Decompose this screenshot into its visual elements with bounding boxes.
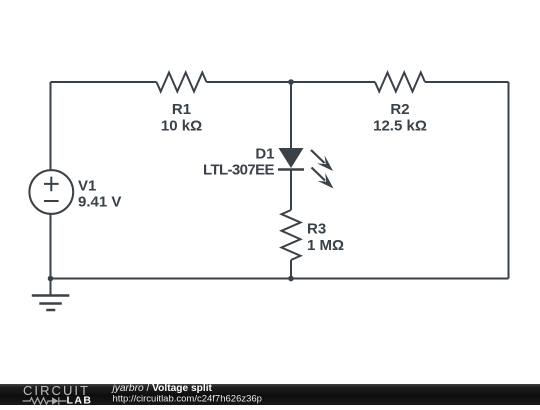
D1 light arrow 1 <box>311 150 333 171</box>
svg-text:R1: R1 <box>172 101 191 118</box>
ground bar 1 <box>32 294 70 297</box>
wire D1 cathode to R3 <box>290 170 292 211</box>
resistor R3 <box>282 210 301 260</box>
wire V1 bottom to node B <box>50 214 52 279</box>
junction node C dot <box>288 276 294 282</box>
svg-text:R3: R3 <box>307 221 326 238</box>
svg-text:D1: D1 <box>255 146 274 163</box>
wire top-left horizontal <box>51 81 157 83</box>
wire left top vertical <box>50 82 52 170</box>
V1 minus sign <box>44 200 59 202</box>
ground stem <box>50 279 52 296</box>
wire R2 to top-right corner <box>425 81 509 83</box>
diode D1 anode triangle <box>279 148 304 168</box>
svg-text:9.41 V: 9.41 V <box>78 194 121 211</box>
svg-text:R2: R2 <box>390 101 409 118</box>
svg-text:LAB: LAB <box>67 394 92 405</box>
junction node A dot <box>288 79 294 85</box>
svg-text:jyarbro / Voltage split: jyarbro / Voltage split <box>111 383 213 394</box>
wire right vertical <box>508 82 510 279</box>
logo resistor-diode glyph <box>23 397 67 404</box>
logo diode triangle <box>52 397 58 404</box>
ground bar 3 <box>46 309 55 312</box>
diode D1 cathode bar <box>278 168 304 171</box>
svg-text:http://circuitlab.com/c24f7h62: http://circuitlab.com/c24f7h626z36p <box>113 394 262 405</box>
svg-text:V1: V1 <box>78 178 96 195</box>
resistor R1 <box>157 73 207 92</box>
resistor R2 <box>375 73 425 92</box>
footer bar <box>0 384 540 405</box>
wire R3 to node C <box>290 260 292 279</box>
voltage source V1 circle <box>29 170 73 214</box>
V1 plus sign <box>44 177 59 192</box>
D1 light arrow 2 <box>312 168 334 189</box>
svg-text:LTL-307EE: LTL-307EE <box>203 162 275 179</box>
wire node A to R2 <box>291 81 375 83</box>
svg-text:12.5 kΩ: 12.5 kΩ <box>373 118 427 135</box>
junction node B dot <box>48 276 54 282</box>
wire R1 to node A <box>207 81 292 83</box>
svg-text:1 MΩ: 1 MΩ <box>307 237 344 254</box>
wire node A down to D1 anode <box>290 82 292 149</box>
ground bar 2 <box>39 302 62 305</box>
svg-text:10 kΩ: 10 kΩ <box>161 118 202 135</box>
wire bottom horizontal <box>51 278 509 280</box>
